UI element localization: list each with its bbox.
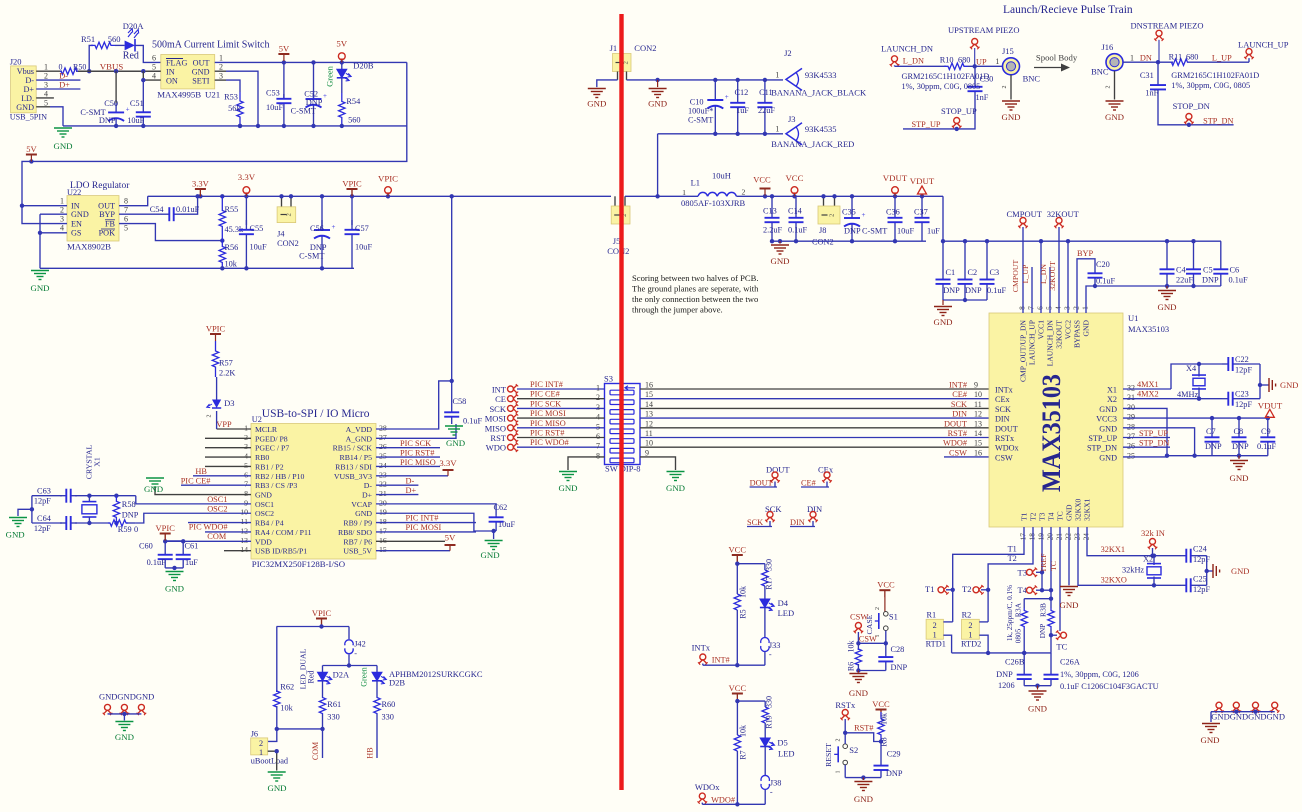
svg-text:3.3V: 3.3V — [192, 179, 210, 189]
wire to LAUNCH_UP — [1188, 54, 1249, 63]
svg-text:C4: C4 — [1176, 266, 1187, 275]
svg-text:T3: T3 — [1018, 568, 1027, 578]
svg-text:SCK: SCK — [951, 400, 967, 409]
svg-text:17: 17 — [1019, 533, 1028, 541]
power 5V — [278, 44, 290, 62]
label VBUS — [100, 62, 124, 72]
svg-text:GND: GND — [770, 256, 789, 266]
svg-text:5: 5 — [152, 62, 156, 71]
svg-text:2: 2 — [219, 62, 223, 71]
wire S3-14 to U1 — [640, 400, 989, 409]
svg-text:7: 7 — [596, 442, 600, 451]
svg-text:2: 2 — [244, 433, 248, 442]
svg-text:VPIC: VPIC — [206, 324, 226, 334]
svg-text:D2A: D2A — [333, 670, 350, 680]
svg-text:0805: 0805 — [1015, 628, 1023, 643]
svg-text:VCC3: VCC3 — [1096, 415, 1117, 424]
svg-text:RB1 / P2: RB1 / P2 — [255, 462, 284, 471]
svg-text:R51: R51 — [81, 34, 95, 44]
ground c60 — [165, 572, 184, 594]
power VPIC bar 3 — [156, 523, 176, 541]
svg-text:GND: GND — [1231, 566, 1249, 576]
ground pin8 — [144, 478, 164, 494]
svg-text:DOUT: DOUT — [995, 424, 1018, 433]
svg-text:R57: R57 — [219, 359, 233, 368]
diode D3 — [207, 398, 235, 429]
svg-text:BANANA_JACK_RED: BANANA_JACK_RED — [771, 139, 854, 149]
svg-text:23: 23 — [1073, 533, 1082, 541]
wire pin28 gnd — [1123, 428, 1197, 458]
svg-text:4: 4 — [244, 452, 248, 461]
svg-text:J4: J4 — [277, 230, 285, 239]
spool body arrow — [1034, 53, 1078, 72]
ground A_GND — [445, 426, 465, 448]
svg-text:1: 1 — [836, 771, 842, 774]
wire c26 gnd — [1024, 684, 1051, 690]
pin number S3-2 — [596, 393, 600, 402]
resistor R62 — [274, 627, 295, 729]
svg-text:HB: HB — [195, 467, 207, 476]
svg-text:PIC SCK: PIC SCK — [400, 439, 431, 448]
svg-text:GND: GND — [933, 317, 952, 327]
svg-text:12: 12 — [974, 410, 982, 419]
svg-text:2: 2 — [286, 213, 293, 216]
ground S1 — [849, 674, 868, 699]
svg-text:GND: GND — [1099, 453, 1117, 462]
svg-text:STOP_DN: STOP_DN — [1173, 101, 1210, 111]
svg-text:28: 28 — [379, 424, 387, 433]
svg-text:uBootLoad: uBootLoad — [251, 757, 289, 766]
flag SCK — [747, 504, 782, 527]
switch S2 — [824, 733, 858, 778]
svg-text:1uF: 1uF — [736, 106, 749, 115]
svg-text:C26B: C26B — [1005, 658, 1025, 667]
wire TC pin — [1059, 527, 1061, 631]
switch S3 SW DIP-8 — [604, 374, 641, 474]
svg-text:+: + — [323, 92, 327, 100]
svg-text:18: 18 — [379, 517, 387, 526]
svg-text:J2: J2 — [784, 48, 792, 58]
svg-text:10uH: 10uH — [712, 171, 731, 181]
svg-text:C-SMT: C-SMT — [688, 116, 713, 125]
connector J8 — [812, 194, 840, 246]
svg-text:-: - — [354, 649, 357, 658]
svg-text:330: 330 — [765, 559, 774, 571]
svg-text:MISO: MISO — [485, 423, 506, 433]
svg-text:+: + — [862, 211, 866, 219]
svg-text:CE#: CE# — [952, 390, 967, 399]
wire 5V feed — [22, 62, 407, 205]
svg-text:1: 1 — [775, 125, 779, 134]
svg-text:12pF: 12pF — [1193, 585, 1210, 594]
capacitor C8 — [1232, 418, 1249, 456]
svg-text:OUT: OUT — [193, 59, 210, 68]
svg-text:RST: RST — [490, 433, 506, 443]
wire STP_UP net — [903, 96, 975, 131]
svg-text:DOUT: DOUT — [944, 419, 967, 428]
svg-text:C2: C2 — [968, 268, 978, 277]
svg-text:16: 16 — [645, 381, 653, 390]
jumper J33 — [761, 608, 781, 666]
svg-text:BNC: BNC — [1091, 67, 1109, 77]
svg-text:PIC SCK: PIC SCK — [530, 399, 561, 408]
pin number S3-5 — [596, 422, 600, 431]
wire TREF — [1039, 527, 1048, 592]
pin number S3-1 — [596, 384, 600, 393]
capacitor C37 — [914, 196, 940, 241]
svg-text:INTx: INTx — [995, 386, 1013, 395]
svg-text:GND: GND — [192, 67, 210, 76]
wire COM — [205, 532, 251, 541]
flag LAUNCH_UP — [1238, 40, 1289, 63]
svg-text:X1: X1 — [1107, 386, 1117, 395]
capacitor C4 — [1160, 241, 1194, 286]
svg-text:22uF: 22uF — [758, 106, 775, 115]
node MISO — [485, 419, 605, 434]
svg-text:PIC CE#: PIC CE# — [530, 390, 560, 399]
power VCC bar int — [729, 545, 747, 564]
wire wdo top — [735, 699, 765, 703]
svg-text:27: 27 — [1127, 432, 1135, 441]
power flag VDUT — [883, 173, 908, 196]
connector J6 — [251, 729, 289, 765]
svg-text:R1: R1 — [927, 611, 937, 620]
svg-text:PIC MOSI: PIC MOSI — [406, 523, 442, 532]
wire BYP C20 — [1077, 249, 1095, 313]
svg-text:USB_5V: USB_5V — [343, 547, 372, 556]
svg-text:C12: C12 — [735, 88, 749, 97]
svg-text:12: 12 — [645, 419, 653, 428]
power VPIC bar 4 — [312, 608, 332, 627]
wire BYP C54 — [119, 194, 200, 221]
svg-text:6: 6 — [244, 470, 248, 479]
svg-text:0.1uF: 0.1uF — [1257, 442, 1277, 451]
svg-text:93K4535: 93K4535 — [805, 124, 837, 134]
svg-text:D20B: D20B — [353, 61, 374, 71]
svg-text:INTx: INTx — [692, 643, 711, 653]
svg-text:10uF: 10uF — [897, 227, 914, 236]
IC U1 MAX35103 — [989, 306, 1169, 541]
svg-text:GND: GND — [115, 732, 134, 742]
svg-text:INT: INT — [492, 385, 507, 395]
wire csw node — [856, 631, 888, 646]
power flag VPIC — [378, 174, 398, 197]
capacitor C2 — [958, 241, 982, 300]
svg-text:12pF: 12pF — [34, 524, 51, 533]
svg-text:0.1uF: 0.1uF — [1096, 277, 1116, 286]
svg-text:J38: J38 — [770, 779, 782, 788]
svg-text:C9: C9 — [1261, 427, 1271, 436]
wire VCC2 — [1067, 241, 1069, 313]
svg-text:1nF: 1nF — [1145, 89, 1158, 98]
capacitor C3 — [980, 241, 1007, 300]
svg-text:2: 2 — [1072, 306, 1081, 310]
svg-text:D-: D- — [59, 72, 68, 81]
flag CMPOUT — [1007, 209, 1043, 313]
svg-text:C3: C3 — [990, 268, 1000, 277]
svg-text:T2: T2 — [1029, 512, 1038, 521]
capacitor C10 — [688, 80, 729, 134]
svg-text:GRM2165C1H102FA01D: GRM2165C1H102FA01D — [1171, 71, 1259, 80]
svg-text:GND: GND — [1157, 302, 1176, 312]
svg-text:C61: C61 — [185, 542, 199, 551]
resistor R6 — [847, 641, 862, 672]
svg-text:U1: U1 — [1128, 313, 1138, 323]
svg-text:Green: Green — [325, 65, 335, 87]
capacitor C23 — [1222, 390, 1260, 410]
svg-text:T4: T4 — [1047, 512, 1056, 521]
svg-text:VPIC: VPIC — [342, 179, 362, 189]
banana jack J3 — [771, 114, 854, 149]
svg-text:OSC1: OSC1 — [255, 500, 274, 509]
svg-text:10k: 10k — [739, 725, 748, 737]
svg-text:30: 30 — [1127, 403, 1135, 412]
ground tap 32k — [1213, 564, 1249, 578]
svg-text:J8: J8 — [819, 226, 826, 235]
svg-text:2: 2 — [933, 621, 937, 630]
title LDO — [67, 181, 130, 197]
svg-text:C57: C57 — [355, 224, 369, 233]
svg-text:680: 680 — [958, 56, 970, 65]
svg-text:C53: C53 — [266, 89, 280, 98]
svg-text:DNSTREAM PIEZO: DNSTREAM PIEZO — [1131, 21, 1204, 31]
svg-text:MOSI: MOSI — [485, 414, 506, 424]
svg-text:2: 2 — [829, 214, 836, 217]
svg-text:VDUT: VDUT — [910, 176, 935, 186]
svg-text:GND: GND — [71, 210, 89, 219]
svg-text:D2B: D2B — [389, 678, 405, 688]
svg-text:10uF: 10uF — [498, 520, 515, 529]
svg-text:32k IN: 32k IN — [1141, 528, 1165, 538]
svg-text:R59: R59 — [118, 525, 132, 534]
capacitor C56 — [299, 196, 335, 270]
svg-text:C26A: C26A — [1060, 658, 1080, 667]
wire S3-11 to U1 — [640, 429, 989, 438]
wire VUSB 3.3V — [376, 458, 457, 476]
svg-text:560: 560 — [108, 34, 121, 44]
svg-text:12pF: 12pF — [34, 497, 51, 506]
svg-text:GND: GND — [1099, 424, 1117, 433]
svg-text:T3: T3 — [1038, 512, 1047, 521]
svg-text:DN: DN — [1140, 54, 1152, 63]
svg-text:C63: C63 — [37, 487, 51, 496]
resistor R59 — [108, 520, 138, 534]
connector J5 — [607, 196, 630, 256]
resistor R51 — [81, 34, 121, 49]
svg-text:D+: D+ — [59, 80, 70, 89]
wire ON — [141, 71, 161, 82]
wire rail VCC — [736, 194, 943, 198]
svg-text:J1: J1 — [610, 43, 618, 53]
svg-text:BYPASS: BYPASS — [1073, 320, 1082, 348]
resistor R7 — [734, 701, 747, 804]
svg-text:OSC1: OSC1 — [207, 495, 227, 504]
svg-text:R7: R7 — [739, 750, 748, 759]
ground tap X4 — [1269, 378, 1298, 392]
wire s2 gnd rail — [845, 775, 881, 780]
svg-text:C5: C5 — [1203, 266, 1213, 275]
svg-text:VPIC: VPIC — [156, 523, 176, 533]
svg-text:RB3 / CS /P3: RB3 / CS /P3 — [255, 481, 297, 490]
svg-text:C64: C64 — [37, 514, 52, 523]
svg-text:GND: GND — [165, 584, 184, 594]
svg-text:L1: L1 — [691, 178, 700, 188]
svg-text:9: 9 — [645, 448, 649, 457]
svg-text:C22: C22 — [1235, 355, 1249, 364]
svg-text:PIC INT#: PIC INT# — [530, 380, 563, 389]
svg-text:T2: T2 — [962, 584, 971, 594]
svg-text:STP_DN: STP_DN — [1203, 116, 1233, 125]
svg-text:Launch/Recieve Pulse Train: Launch/Recieve Pulse Train — [1003, 4, 1133, 16]
svg-text:2: 2 — [836, 739, 842, 742]
svg-text:C62: C62 — [494, 503, 508, 512]
svg-text:C36: C36 — [886, 208, 900, 217]
wire J6 link — [268, 727, 323, 742]
ground LDO — [30, 271, 49, 294]
svg-text:X2: X2 — [1107, 395, 1117, 404]
svg-text:1uF: 1uF — [927, 227, 940, 236]
svg-text:GNDGNDGND: GNDGNDGND — [99, 692, 154, 702]
svg-text:R61: R61 — [327, 700, 341, 709]
flag DIN — [790, 504, 822, 527]
capacitor C62 — [489, 503, 516, 531]
svg-text:C14: C14 — [788, 207, 803, 216]
svg-text:2: 2 — [1002, 86, 1008, 89]
svg-text:C8: C8 — [1234, 427, 1244, 436]
svg-text:J20: J20 — [10, 57, 22, 67]
svg-text:LAUNCH_DN: LAUNCH_DN — [1046, 319, 1055, 366]
resistor R17 — [762, 559, 774, 590]
svg-text:BYP: BYP — [99, 210, 115, 219]
svg-text:GND: GND — [481, 550, 500, 560]
svg-text:VDUT: VDUT — [883, 173, 908, 183]
svg-text:USB ID/RB5/P1: USB ID/RB5/P1 — [255, 547, 307, 556]
wire J6 pin1 — [268, 749, 279, 771]
LED D20A — [115, 21, 144, 62]
svg-text:DNP: DNP — [1205, 442, 1222, 451]
wire OUT — [119, 196, 148, 205]
svg-text:GND: GND — [30, 283, 49, 293]
svg-text:GND: GND — [53, 141, 72, 151]
capacitor C20 — [1088, 260, 1116, 286]
wire FB — [119, 224, 225, 243]
wire to J15 — [968, 57, 1003, 66]
svg-text:16: 16 — [974, 448, 982, 457]
title USB-to-SPI — [262, 408, 370, 420]
svg-text:L_DN: L_DN — [1039, 264, 1048, 284]
ground J6 — [267, 772, 286, 793]
svg-text:1uF: 1uF — [185, 558, 198, 567]
svg-text:1: 1 — [1081, 306, 1090, 310]
svg-text:5V: 5V — [279, 44, 290, 54]
ground crystal — [6, 518, 27, 540]
svg-text:USB_5PIN: USB_5PIN — [10, 113, 47, 122]
svg-text:12pF: 12pF — [1235, 366, 1252, 375]
svg-text:26: 26 — [379, 442, 387, 451]
wire rtd rail — [952, 651, 1051, 655]
svg-text:R55: R55 — [225, 205, 239, 214]
ground J1 right — [648, 80, 667, 109]
wire HB — [193, 467, 251, 476]
power tri VDUT — [910, 176, 935, 196]
capacitor C28 — [878, 643, 907, 672]
svg-text:6: 6 — [124, 215, 128, 224]
crystal X4 — [1177, 364, 1206, 401]
wire red jack — [655, 132, 783, 199]
resistor R11 — [1169, 53, 1199, 66]
wire osc top rail — [32, 494, 136, 498]
svg-text:GND: GND — [666, 483, 685, 493]
capacitor C35 — [842, 196, 866, 243]
svg-text:UP: UP — [976, 57, 987, 66]
crystal X1 — [82, 445, 102, 523]
svg-text:4: 4 — [60, 224, 64, 233]
svg-text:330: 330 — [765, 696, 774, 708]
svg-text:VCAP: VCAP — [351, 500, 372, 509]
svg-text:C20: C20 — [1096, 260, 1110, 269]
svg-text:2: 2 — [259, 739, 263, 748]
svg-text:DNP: DNP — [122, 510, 139, 519]
svg-text:RST#: RST# — [948, 429, 967, 438]
resistor R19 — [762, 696, 774, 729]
wire D+ pin — [376, 486, 418, 495]
wire OUT 5V — [215, 60, 407, 64]
jumper J38 — [761, 747, 781, 805]
flag CEx — [801, 465, 834, 488]
svg-text:56k: 56k — [228, 104, 241, 113]
svg-text:6: 6 — [1036, 306, 1045, 310]
svg-text:VCC: VCC — [872, 699, 890, 709]
svg-text:GND: GND — [446, 438, 465, 448]
svg-text:X2: X2 — [1143, 555, 1153, 564]
wire STP_DN net — [1158, 95, 1234, 128]
svg-text:RSTx: RSTx — [995, 434, 1014, 443]
svg-text:13: 13 — [645, 410, 653, 419]
wire HB net — [366, 714, 378, 759]
banana jack J2 — [771, 48, 867, 98]
svg-text:29: 29 — [1127, 413, 1135, 422]
wire S3 pin8 gnd — [568, 451, 605, 470]
ground S3 right — [666, 472, 685, 494]
wire pin19 gnd — [376, 513, 496, 539]
capacitor C22 — [1222, 355, 1260, 375]
flag DOUT — [750, 465, 791, 488]
svg-text:R3A: R3A — [1014, 602, 1023, 617]
svg-text:1: 1 — [933, 631, 937, 640]
capacitor C58 — [444, 381, 482, 426]
svg-text:UPSTREAM PIEZO: UPSTREAM PIEZO — [948, 25, 1020, 35]
svg-text:32KX0: 32KX0 — [1074, 498, 1083, 521]
wire stub p5 — [205, 465, 251, 467]
capacitor C50 — [80, 71, 129, 126]
wire PIC MISO — [376, 458, 440, 467]
svg-text:DOUT: DOUT — [766, 465, 790, 475]
svg-text:1: 1 — [995, 57, 999, 66]
svg-text:VPIC: VPIC — [378, 174, 398, 184]
svg-text:1%, 30ppm, C0G, 0805: 1%, 30ppm, C0G, 0805 — [902, 82, 981, 91]
svg-text:C56: C56 — [310, 224, 324, 233]
svg-text:17: 17 — [379, 526, 387, 535]
svg-text:D+: D+ — [362, 491, 373, 500]
flag T4 — [1018, 585, 1054, 595]
svg-text:GND: GND — [1229, 473, 1248, 483]
svg-text:10k: 10k — [880, 713, 889, 725]
svg-text:PIC RST#: PIC RST# — [400, 449, 434, 458]
capacitor C11 — [757, 80, 775, 134]
svg-text:RB2 / HB / P10: RB2 / HB / P10 — [255, 472, 304, 481]
svg-text:14: 14 — [645, 400, 653, 409]
svg-text:C23: C23 — [1235, 390, 1249, 399]
